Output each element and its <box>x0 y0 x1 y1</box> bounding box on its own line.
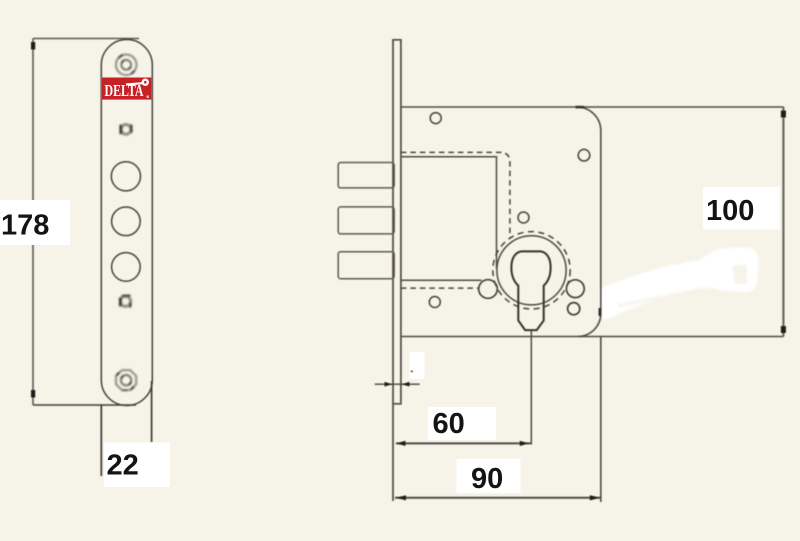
deadbolt 2 <box>338 207 394 234</box>
90 extension line (body right edge down) <box>600 337 602 503</box>
dashed mechanism line bottom <box>401 287 479 289</box>
dimension 90 line <box>395 497 601 499</box>
svg-text:178: 178 <box>1 210 49 242</box>
interior small circle <box>518 212 529 223</box>
body screw hole top-right <box>578 149 590 161</box>
body screw hole bottom-left <box>429 297 440 308</box>
bottom screw hole inner <box>121 375 131 385</box>
lock body bottom edge + 100 extension <box>401 336 784 338</box>
dimension 178 line <box>32 39 34 406</box>
dimension 178 extension line bottom <box>33 404 136 406</box>
dashed mechanism outline top/right <box>401 152 510 237</box>
22 extension line right <box>151 381 153 442</box>
inner mechanism solid line bottom <box>401 279 482 281</box>
label 22 <box>104 443 170 488</box>
empty white box near plate thickness dim <box>410 352 425 379</box>
lock side view: faceplate bar <box>393 40 401 501</box>
arrowhead 178 top <box>31 42 35 50</box>
dimension 60 extension (cylinder center down) <box>530 330 532 444</box>
svg-text:60: 60 <box>433 408 465 440</box>
small hole below bolts <box>120 296 130 307</box>
DELTA logo red box <box>102 78 152 101</box>
cylinder dashed circle <box>493 232 570 309</box>
svg-text:90: 90 <box>471 463 503 495</box>
svg-text:100: 100 <box>706 195 754 227</box>
right small circle <box>568 303 580 315</box>
erased white swoosh <box>600 247 759 318</box>
label 60 <box>428 407 496 440</box>
dimension 178 extension line top <box>33 38 139 40</box>
svg-text:22: 22 <box>107 450 139 482</box>
cylinder solid circle <box>497 236 566 305</box>
22 extension line left <box>100 406 102 477</box>
euro cylinder keyhole profile <box>511 251 550 330</box>
faceplate front view outline <box>101 40 152 406</box>
hex hole under logo <box>121 124 132 134</box>
lock body right edge w/ rounded corners <box>577 107 601 337</box>
follower hub circle <box>479 280 498 299</box>
plate thickness dimension <box>375 383 420 385</box>
bolt hole 3 <box>112 253 141 282</box>
top screw hole outer <box>116 55 137 76</box>
deadbolt 3 <box>338 252 394 279</box>
top screw hole inner <box>121 60 131 70</box>
lock body top edge + 100 extension <box>401 106 784 108</box>
inner mechanism solid outline top/right <box>401 157 497 269</box>
label 100 <box>703 187 780 230</box>
arrowhead 178 bottom <box>31 390 35 398</box>
bottom screw hole outer <box>116 370 136 390</box>
dimension 100 line <box>782 107 784 337</box>
deadbolt 1 <box>338 163 394 188</box>
label 178 <box>0 200 70 245</box>
bolt hole 2 <box>112 207 141 236</box>
dark tick at corner start <box>576 106 585 109</box>
dimension 60 line <box>396 442 531 444</box>
bolt hole 1 <box>111 162 140 191</box>
label 90 <box>457 459 521 495</box>
body screw hole top-left <box>430 113 441 124</box>
right medium circle <box>566 280 584 298</box>
